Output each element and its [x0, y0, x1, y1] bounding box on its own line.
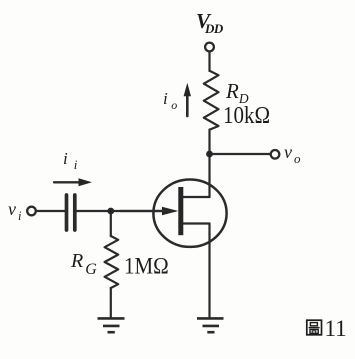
label 10kOhm — [223, 101, 270, 130]
wire VDD to RD — [208, 52, 210, 71]
wire node to RG — [110, 211, 112, 236]
capacitor C1 left plate — [65, 195, 69, 230]
label ii — [63, 149, 77, 173]
label RD — [226, 79, 249, 107]
current arrow ii — [54, 181, 80, 183]
wire RD to drain — [208, 130, 210, 198]
terminal vi — [27, 207, 36, 216]
wire node to vo terminal — [210, 153, 271, 155]
label VDD — [196, 9, 223, 37]
terminal vo — [271, 150, 280, 159]
ground symbol right — [197, 318, 224, 332]
wire capacitor to gate — [76, 210, 165, 212]
transistor Q1 gate bar — [178, 187, 183, 235]
resistor RD 10kOhm — [204, 71, 219, 130]
wire RG to ground — [110, 288, 112, 318]
transistor Q1 gate arrowhead — [162, 207, 178, 216]
wire source to ground — [208, 224, 210, 318]
transistor Q1 drain lead — [183, 196, 209, 198]
arrowhead ii — [79, 178, 93, 186]
current arrow io — [186, 95, 189, 116]
transistor Q1 source lead — [183, 222, 209, 224]
label io — [163, 89, 177, 113]
label RG — [71, 250, 97, 279]
node drain junction — [206, 151, 213, 158]
svg-text:11: 11 — [325, 318, 347, 340]
glyph tu (figure) — [307, 320, 322, 335]
transistor Q1 body — [153, 180, 226, 247]
resistor RG 1MOhm — [105, 236, 119, 288]
terminal VDD — [205, 43, 214, 52]
caption figure 11 — [305, 318, 347, 340]
ground symbol left — [98, 318, 125, 332]
label vo — [284, 142, 301, 167]
label 1MOhm — [124, 252, 169, 280]
node gate junction — [107, 208, 114, 215]
capacitor C1 right plate — [73, 195, 77, 230]
label vi — [8, 199, 21, 224]
wire gate arrow shaft — [120, 210, 172, 212]
arrowhead io — [184, 83, 191, 96]
wire vi terminal to capacitor — [36, 210, 65, 212]
